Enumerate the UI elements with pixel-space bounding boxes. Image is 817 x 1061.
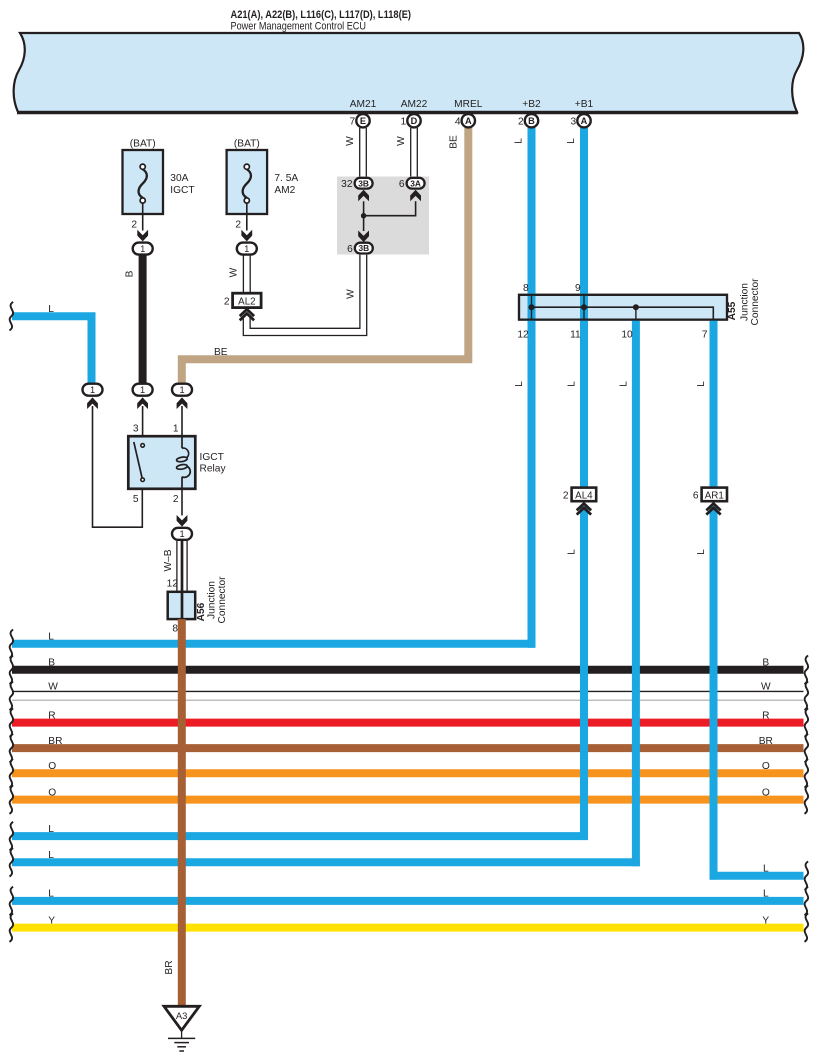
svg-text:E: E xyxy=(360,116,366,126)
svg-text:L: L xyxy=(514,381,525,387)
svg-text:3B: 3B xyxy=(358,178,369,188)
svg-text:2: 2 xyxy=(131,220,137,231)
svg-text:7: 7 xyxy=(702,330,708,341)
svg-text:AL4: AL4 xyxy=(575,490,593,501)
svg-text:11: 11 xyxy=(570,330,581,341)
relay pin 5 wire loop xyxy=(93,406,143,527)
wire W from pin E to junction 3B xyxy=(345,128,366,177)
svg-text:A21(A), A22(B), L116(C), L117(: A21(A), A22(B), L116(C), L117(D), L118(E… xyxy=(231,9,412,21)
svg-text:L: L xyxy=(48,632,54,643)
svg-text:+B2: +B2 xyxy=(522,99,541,110)
svg-text:12: 12 xyxy=(167,579,179,590)
relay pin 3 lead xyxy=(142,406,144,436)
fuse 7.5A output pin 2 with connector 1 xyxy=(235,203,256,255)
connector 1 on wire BE xyxy=(172,384,192,409)
svg-text:R: R xyxy=(48,710,55,721)
svg-text:Junction: Junction xyxy=(740,283,751,321)
relay switch contact xyxy=(134,442,145,482)
svg-text:AM21: AM21 xyxy=(350,99,377,110)
svg-text:A55: A55 xyxy=(727,301,738,320)
svg-text:AR1: AR1 xyxy=(705,490,724,501)
svg-text:8: 8 xyxy=(172,624,178,635)
svg-text:3B: 3B xyxy=(358,243,369,253)
svg-text:L: L xyxy=(48,824,54,835)
svg-text:Connector: Connector xyxy=(217,576,228,624)
svg-text:6: 6 xyxy=(399,179,405,190)
svg-text:Connector: Connector xyxy=(750,278,761,326)
pin 7 (E) of ECU xyxy=(350,114,370,128)
svg-text:7. 5A: 7. 5A xyxy=(274,173,298,184)
pin 3 (A) of ECU xyxy=(571,114,591,128)
wire W from AL2 to junction 3B xyxy=(243,255,366,336)
connector 1 on wire B xyxy=(133,384,153,409)
relay coil xyxy=(176,436,190,489)
svg-text:BR: BR xyxy=(48,736,62,747)
wire W from fuse AM2 to connector AL2 xyxy=(229,255,251,293)
svg-text:10: 10 xyxy=(621,330,633,341)
svg-text:5: 5 xyxy=(133,494,139,505)
wire BR from A56 to ground xyxy=(164,619,182,1006)
svg-text:1: 1 xyxy=(401,117,407,128)
wire BR horizontal row 5 xyxy=(10,734,809,763)
svg-text:B: B xyxy=(762,658,769,669)
svg-text:IGCT: IGCT xyxy=(170,185,194,196)
connector 1 on wire L xyxy=(83,384,103,409)
svg-text:W: W xyxy=(229,267,240,277)
svg-text:L: L xyxy=(48,850,54,861)
junction pin 32 (3B) xyxy=(341,178,372,190)
svg-text:Y: Y xyxy=(48,915,55,926)
junction connector A55 border and internal bus xyxy=(519,295,727,320)
connector AR1 xyxy=(693,488,727,515)
wire L horizontal row 1 xyxy=(10,630,536,659)
A55 junction connector label xyxy=(727,278,761,326)
wire B horizontal row 2 xyxy=(10,656,809,685)
svg-text:A3: A3 xyxy=(176,1010,187,1021)
svg-text:MREL: MREL xyxy=(454,99,483,110)
wire L from A55 pin 7 through AR1 to bottom wire xyxy=(696,320,714,880)
svg-text:6: 6 xyxy=(693,490,699,501)
svg-text:BR: BR xyxy=(164,960,175,974)
Power Management Control ECU band xyxy=(14,33,804,112)
svg-text:1: 1 xyxy=(179,529,184,539)
wire L horizontal row 10 right side xyxy=(710,861,809,890)
junction connector A56 xyxy=(167,576,228,635)
wire O horizontal row 7 xyxy=(10,785,809,814)
svg-text:AM22: AM22 xyxy=(401,99,428,110)
svg-text:D: D xyxy=(411,116,418,126)
svg-text:8: 8 xyxy=(523,283,529,294)
svg-text:2: 2 xyxy=(563,490,569,501)
wire L from left break to relay pin 5 connector xyxy=(10,302,92,383)
wire BE from pin MREL to relay pin 1 connector xyxy=(182,128,469,383)
svg-text:L: L xyxy=(48,889,54,900)
svg-text:L: L xyxy=(567,381,578,387)
svg-text:3: 3 xyxy=(133,424,139,435)
svg-text:4: 4 xyxy=(455,117,461,128)
svg-text:A: A xyxy=(581,116,588,126)
ground A3 xyxy=(164,1006,199,1051)
svg-text:O: O xyxy=(48,787,56,798)
svg-text:2: 2 xyxy=(173,494,179,505)
svg-text:A56: A56 xyxy=(196,602,207,621)
svg-text:L: L xyxy=(763,889,769,900)
svg-text:3: 3 xyxy=(571,117,577,128)
svg-text:L: L xyxy=(48,304,54,315)
wire L from pin +B2 down through A55 to bottom wire xyxy=(514,128,532,648)
svg-text:(BAT): (BAT) xyxy=(234,138,260,149)
ECU title text xyxy=(231,9,412,33)
svg-text:6: 6 xyxy=(347,244,353,255)
svg-text:R: R xyxy=(762,710,769,721)
svg-text:AM2: AM2 xyxy=(274,185,295,196)
connector AL4 xyxy=(563,488,596,515)
svg-text:W: W xyxy=(346,289,357,299)
svg-text:9: 9 xyxy=(575,283,581,294)
fuse 30A output pin 2 with connector 1 xyxy=(131,203,152,255)
svg-text:W: W xyxy=(48,681,58,692)
svg-text:1: 1 xyxy=(140,244,145,254)
wire Y horizontal row 12 xyxy=(10,913,809,942)
svg-text:B: B xyxy=(125,270,136,277)
svg-text:+B1: +B1 xyxy=(575,99,594,110)
junction block internal wiring xyxy=(358,190,421,242)
relay pin 1 lead xyxy=(181,406,183,436)
wire W-B from relay pin 2 to A56 xyxy=(163,541,187,592)
relay pin 2 lead with connector 1 xyxy=(172,489,192,540)
pin 4 (A) of ECU xyxy=(455,114,475,128)
wire L horizontal row 8 xyxy=(10,822,588,851)
svg-text:AL2: AL2 xyxy=(238,296,255,307)
fuse 30A IGCT xyxy=(123,138,195,214)
svg-text:B: B xyxy=(528,116,535,126)
svg-text:L: L xyxy=(696,549,707,555)
pin 1 (D) of ECU xyxy=(401,114,421,128)
wire W horizontal row 3 xyxy=(10,681,809,710)
svg-text:12: 12 xyxy=(517,330,529,341)
wire B from fuse 30A to relay connector xyxy=(125,255,143,383)
svg-text:(BAT): (BAT) xyxy=(130,138,156,149)
junction pin 6 (3B) lower xyxy=(347,243,373,255)
svg-text:O: O xyxy=(762,761,770,772)
svg-text:A: A xyxy=(465,116,472,126)
svg-text:BE: BE xyxy=(449,135,460,149)
svg-text:L: L xyxy=(567,549,578,555)
svg-text:W: W xyxy=(345,136,356,146)
svg-text:32: 32 xyxy=(341,179,353,190)
svg-text:L: L xyxy=(763,864,769,875)
svg-text:1: 1 xyxy=(90,385,95,395)
svg-text:L: L xyxy=(514,138,525,144)
fuse 7.5A AM2 xyxy=(227,138,299,214)
wire L horizontal row 11 xyxy=(10,887,809,916)
svg-text:1: 1 xyxy=(179,385,184,395)
wire R horizontal row 4 xyxy=(10,708,809,737)
wire L horizontal row 9 xyxy=(10,848,640,877)
svg-text:W: W xyxy=(396,136,407,146)
svg-text:Y: Y xyxy=(762,915,769,926)
svg-text:W: W xyxy=(761,681,771,692)
svg-text:BR: BR xyxy=(759,736,773,747)
wire L from pin +B1 down through A55 and AL4 to bottom wire xyxy=(566,128,584,840)
junction block gray body xyxy=(337,177,429,255)
svg-text:L: L xyxy=(618,381,629,387)
svg-text:3A: 3A xyxy=(410,178,421,188)
svg-text:2: 2 xyxy=(235,220,241,231)
svg-text:2: 2 xyxy=(518,117,524,128)
connector AL2 xyxy=(224,293,261,320)
svg-text:Relay: Relay xyxy=(200,464,227,475)
svg-text:1: 1 xyxy=(173,424,179,435)
svg-text:B: B xyxy=(48,658,55,669)
svg-text:BE: BE xyxy=(214,347,228,358)
svg-text:2: 2 xyxy=(224,297,230,308)
svg-text:1: 1 xyxy=(140,385,145,395)
IGCT relay xyxy=(128,424,226,505)
svg-text:O: O xyxy=(48,761,56,772)
svg-text:IGCT: IGCT xyxy=(200,452,224,463)
junction pin 6 (3A) xyxy=(399,178,425,190)
wire O horizontal row 6 xyxy=(10,759,809,788)
svg-text:L: L xyxy=(566,138,577,144)
svg-text:Junction: Junction xyxy=(207,581,218,619)
svg-text:O: O xyxy=(762,787,770,798)
pin 2 (B) of ECU xyxy=(518,114,538,128)
svg-text:1: 1 xyxy=(244,244,249,254)
svg-text:7: 7 xyxy=(350,117,356,128)
svg-text:30A: 30A xyxy=(170,173,188,184)
svg-text:Power Management Control ECU: Power Management Control ECU xyxy=(231,21,367,33)
svg-text:L: L xyxy=(696,381,707,387)
wire W from pin D to junction 3A xyxy=(396,128,417,177)
junction connector A55 body xyxy=(519,295,727,320)
wire L from A55 pin 10 to bottom wire xyxy=(618,320,636,867)
svg-text:W–B: W–B xyxy=(163,549,174,571)
